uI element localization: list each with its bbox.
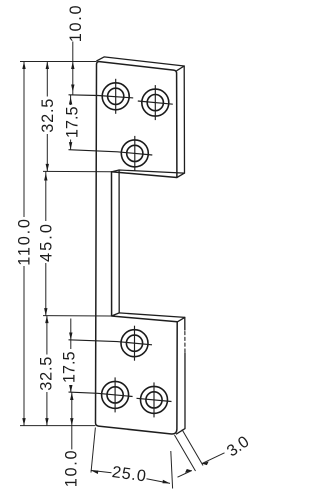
svg-text:110.0: 110.0	[15, 217, 33, 266]
hole B2 inner	[107, 387, 123, 403]
hole T3 inner	[127, 145, 143, 161]
ext: 25.0/3.0 shared diagonal from front bottom-right corner	[175, 435, 196, 471]
crosshair T3 vertical	[134, 136, 136, 171]
crosshair B1 vertical	[134, 326, 136, 361]
crosshair T1 vertical	[115, 79, 117, 114]
hole B2 outer	[102, 381, 129, 408]
dim 3.0 leader right + arrow	[202, 453, 225, 464]
dim 17.5 bottom line	[70, 319, 72, 393]
crosshair T3 horizontal + extension to dim column	[69, 150, 153, 155]
ext: plate top edge	[20, 61, 96, 63]
ext: window top corner	[43, 170, 111, 172]
dim 3.0 leader left + arrow	[178, 471, 192, 478]
ext: plate bottom edge	[20, 425, 95, 427]
top face depth edges	[97, 57, 184, 71]
dim 32.5 bottom line	[46, 316, 48, 426]
dim 17.5 top arrows	[69, 97, 72, 150]
crosshair B3 vertical	[153, 382, 155, 417]
dimension lines and arrows	[22, 42, 224, 484]
svg-text:10.0: 10.0	[63, 449, 81, 488]
hole B3 outer	[141, 386, 168, 413]
crosshair B2 horizontal + extension to dim column	[69, 392, 133, 396]
dim 32.5 top line	[46, 62, 48, 172]
dim 17.5 bottom arrows	[69, 333, 72, 393]
hole T1 outer	[102, 83, 129, 110]
svg-text:17.5: 17.5	[64, 106, 82, 138]
crosshair B2 vertical	[114, 377, 116, 412]
crosshair T1 horizontal + extension to dim column	[69, 95, 134, 98]
svg-text:45.0: 45.0	[38, 222, 56, 262]
hidden back edge (dashed)	[184, 332, 186, 353]
right side face of bottom plate	[177, 317, 186, 434]
dim 10.0 bottom line	[71, 393, 73, 450]
dim 32.5 top arrows	[46, 62, 49, 172]
holes: counterbored, with crosshairs	[102, 83, 169, 414]
ext: 25.0 right	[171, 451, 173, 489]
extension lines	[20, 62, 203, 489]
svg-text:10.0: 10.0	[67, 4, 85, 43]
hole B1 inner	[126, 335, 142, 351]
dim 110.0 line	[23, 62, 25, 426]
crosshairs	[69, 79, 173, 418]
dim 25.0 line	[91, 470, 170, 483]
dim 110.0 arrows	[22, 62, 25, 426]
hole B3 inner	[146, 392, 162, 408]
svg-text:32.5: 32.5	[39, 98, 57, 133]
svg-text:32.5: 32.5	[38, 356, 56, 391]
ext: 3.0 diagonal from back bottom-right corner	[182, 430, 203, 466]
dimension texts	[15, 4, 252, 488]
hole T3 outer	[121, 140, 148, 167]
crosshair T2 horizontal	[138, 101, 173, 104]
dim 10.0 bottom arrows	[70, 393, 73, 426]
ext: window bottom corner	[43, 315, 111, 317]
dim 10.0 top arrows	[71, 62, 74, 93]
dim 32.5 bottom arrows	[45, 316, 48, 426]
bar right side back edge	[118, 170, 120, 313]
crosshair B1 horizontal + extension to dim column	[69, 340, 153, 345]
dim 45.0 line	[45, 171, 47, 315]
crosshair T2 vertical	[154, 85, 156, 120]
window top back edge	[112, 170, 185, 173]
faceplate front face outline	[96, 62, 178, 434]
dim 17.5 top line	[70, 95, 72, 150]
right side face of top plate	[177, 66, 185, 178]
hole B1 outer	[121, 330, 148, 357]
window bottom back edge / bottom plate top face	[112, 313, 185, 322]
svg-text:17.5: 17.5	[60, 351, 78, 383]
hole T1 inner	[108, 88, 124, 104]
hole T2 outer	[142, 89, 169, 116]
dim 25.0 arrows	[91, 470, 170, 483]
ext: 25.0 left	[91, 428, 95, 473]
hole T2 inner	[147, 95, 163, 111]
dim 45.0 arrows	[44, 173, 47, 316]
dim 10.0 top line	[72, 42, 74, 96]
crosshair B3 horizontal	[137, 398, 172, 401]
